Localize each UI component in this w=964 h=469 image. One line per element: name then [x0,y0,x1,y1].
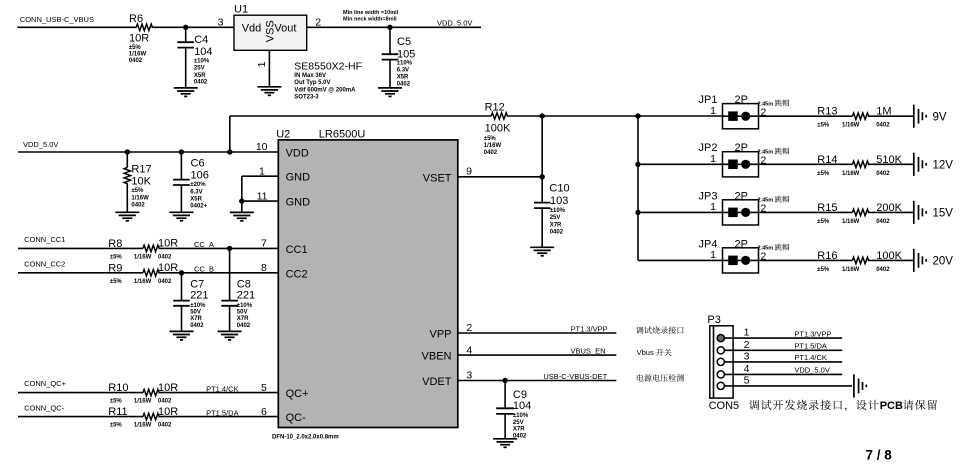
ground below C5 [378,88,402,97]
svg-text:221: 221 [237,289,255,301]
svg-text:0402: 0402 [876,219,890,225]
svg-text:Vdd: Vdd [242,22,262,34]
svg-text:±5%: ±5% [110,423,123,429]
power ground 15V [914,201,926,224]
junction at JP3 tap [635,210,640,215]
svg-text:±5%: ±5% [817,267,830,273]
svg-text:2: 2 [466,322,472,334]
svg-text:0402: 0402 [190,323,204,329]
ground below R17 [115,212,139,221]
svg-text:USB-C-VBUS-DET: USB-C-VBUS-DET [543,372,607,381]
svg-text:0402: 0402 [484,150,498,156]
svg-text:Min line width =10mil: Min line width =10mil [343,10,399,16]
svg-text:1/16W: 1/16W [131,195,149,201]
P3 pin 1 circle [717,335,724,342]
svg-text:C10: C10 [549,182,569,194]
jumper JP2 box [723,152,759,177]
wire R6 to U1 pin 3 [152,26,234,28]
wire P3 pin 5 [724,385,852,387]
wire R14 to ground [868,163,913,165]
JP1 pin 1 pad [728,111,738,121]
wire P3 pin 2 [724,349,842,351]
svg-text:±5%: ±5% [484,136,497,142]
svg-text:103: 103 [550,195,568,207]
svg-text:1: 1 [710,201,716,213]
power ground 20V [914,249,926,272]
resistor R8 [143,245,159,251]
P3 pin 4 circle [717,371,724,378]
svg-text:±5%: ±5% [817,171,830,177]
svg-text:R15: R15 [817,202,837,214]
svg-text:PT1.4/CK: PT1.4/CK [206,384,239,393]
svg-text:1/16W: 1/16W [842,171,860,177]
svg-text:PCB: PCB [880,400,903,412]
JP4 pin 2 pad [741,256,750,265]
svg-text:VDET: VDET [422,376,452,388]
ground below C8 [218,331,242,340]
svg-text:25V: 25V [550,215,561,221]
svg-text:104: 104 [513,400,531,412]
svg-text:CC_B: CC_B [194,265,214,274]
resistor R15 [852,209,868,215]
JP4 pin 1 pad [728,256,738,266]
svg-text:9: 9 [466,166,472,178]
capacitor C5 [382,53,399,55]
svg-text:221: 221 [190,289,208,301]
svg-text:12V: 12V [933,160,954,172]
svg-text:U1: U1 [234,3,248,15]
wire U2 pin 9 VSET [458,176,542,178]
wire CONN_QC+ to R10 [18,392,143,394]
svg-text:X7R: X7R [190,316,202,322]
wire R12 to JP1 [507,115,723,117]
svg-text:±5%: ±5% [110,255,123,261]
svg-text:VDD_5.0V: VDD_5.0V [23,140,58,149]
wire C4 lead [185,27,187,42]
svg-text:25V: 25V [513,420,524,426]
svg-text:CON5: CON5 [709,400,740,412]
wire R11 to U2 pin 6 [159,416,279,418]
wire C10 to ground [541,208,543,247]
svg-text:0402: 0402 [876,267,890,273]
svg-text:R16: R16 [817,250,837,262]
svg-text:±5%: ±5% [110,399,123,405]
capacitor C10 [534,202,551,204]
junction at R17 [125,149,130,154]
svg-text:0402: 0402 [158,279,172,285]
svg-text:3: 3 [218,17,224,29]
P3 pin 2 circle [717,347,724,354]
svg-text:5: 5 [744,374,750,386]
svg-text:1/16W: 1/16W [134,399,152,405]
capacitor C8 [221,300,238,302]
junction at riser to R12 bus [227,149,232,154]
svg-text:±10%: ±10% [513,413,529,419]
wire R9 to U2 pin 8 [159,272,279,274]
svg-text:±5%: ±5% [129,45,142,51]
wire to U2 ground [241,201,243,212]
svg-text:±10%: ±10% [237,303,253,309]
junction at C5 tap [387,25,392,30]
svg-text:Vbus: Vbus [637,348,654,357]
wire JP2 to R14 [759,163,853,165]
note debug programming interface [636,326,643,333]
note keep PCB for debug [749,400,759,410]
wire U1 pin 1 to ground [268,50,270,87]
capacitor C6 [173,179,190,181]
svg-text:SOT23-3: SOT23-3 [294,95,319,101]
wire JP4 to R16 [759,259,853,261]
junction at C9 tap [502,378,507,383]
svg-text:0402: 0402 [158,399,172,405]
svg-text:±5%: ±5% [817,123,830,129]
wire C9 lead [504,381,506,409]
svg-text:R13: R13 [817,106,837,118]
svg-text:1: 1 [710,249,716,261]
svg-text:2.45m: 2.45m [758,198,774,204]
wire CONN_CC2 to R9 [18,272,143,274]
svg-text:CONN_QC-: CONN_QC- [24,404,65,413]
svg-text:9V: 9V [933,111,947,123]
capacitor C9 [496,407,514,409]
wire C6 lead [180,152,182,180]
svg-text:R8: R8 [108,238,122,250]
wire CONN_USB-C_VBUS to R6 [17,26,136,28]
ground below C4 [174,88,198,97]
wire VDD_5.0V to U2 pin 10 [18,151,278,153]
svg-text:CONN_CC2: CONN_CC2 [24,260,65,269]
svg-text:6.3V: 6.3V [397,67,409,73]
svg-text:CC1: CC1 [286,244,308,256]
svg-text:1: 1 [710,153,716,165]
svg-text:0402: 0402 [397,82,411,88]
svg-text:R9: R9 [108,263,122,275]
svg-text:104: 104 [194,46,212,58]
op-amp U1 regulator box [234,15,307,50]
svg-text:0402: 0402 [158,255,172,261]
svg-text:IN Max 36V: IN Max 36V [294,73,326,79]
wire CONN_QC- to R11 [18,416,143,418]
svg-text:100K: 100K [485,122,511,134]
svg-text:±5%: ±5% [131,188,144,194]
svg-text:Min neck width=8mil: Min neck width=8mil [343,16,397,22]
svg-text:VPP: VPP [429,329,451,341]
resistor R11 [143,413,159,419]
svg-text:0402: 0402 [876,123,890,129]
junction at pin 11 ground [239,198,244,203]
resistor R16 [852,257,868,263]
wire C5 lead [389,27,391,54]
wire R13 to ground [868,115,913,117]
wire JP1 internal [723,115,759,117]
resistor R17 [126,152,128,168]
junction at C6 [179,149,184,154]
svg-text:R11: R11 [108,406,127,418]
svg-text:±20%: ±20% [190,182,206,188]
svg-text:10R: 10R [129,33,149,45]
JP3 pin 1 pad [728,208,738,218]
svg-text:2P: 2P [735,190,748,202]
resistor R6 [136,24,152,30]
svg-text:±10%: ±10% [190,303,206,309]
svg-text:1/16W: 1/16W [484,143,502,149]
svg-text:2P: 2P [735,142,748,154]
svg-text:2.45m: 2.45m [758,149,774,155]
wire R10 to U2 pin 5 [159,392,279,394]
junction at C10 tap [540,174,545,179]
wire JP1 to R13 [759,115,853,117]
jumper JP1 box [723,104,759,129]
svg-text:1/16W: 1/16W [842,123,860,129]
svg-text:U2: U2 [276,128,290,140]
svg-text:0402: 0402 [129,58,143,64]
wire U2 pin 1 GND stub [242,175,278,177]
ground below C9 [493,439,517,448]
svg-text:QC+: QC+ [286,388,309,400]
wire C10 lead [541,177,543,203]
svg-text:1/16W: 1/16W [134,255,152,261]
svg-text:±10%: ±10% [194,59,210,65]
wire R16 to ground [868,259,913,261]
svg-text:10K: 10K [131,176,151,188]
junction at C4 tap [183,25,188,30]
svg-text:R12: R12 [485,102,505,114]
svg-text:1/16W: 1/16W [134,279,152,285]
wire U2 pin 4 VBEN [458,354,617,356]
ground below U1 [257,87,281,96]
svg-text:0402: 0402 [194,80,208,86]
svg-text:VBEN: VBEN [422,351,452,363]
svg-text:X5R: X5R [190,197,202,203]
capacitor C4 [177,41,194,43]
svg-text:3: 3 [744,350,750,362]
svg-text:1/16W: 1/16W [134,423,152,429]
resistor R14 [852,161,868,167]
svg-text:106: 106 [191,170,209,182]
wire C7 lead [181,273,183,301]
svg-text:3: 3 [466,370,472,382]
svg-text:20V: 20V [933,256,954,268]
resistor R12 [491,113,507,119]
svg-text:CONN_USB-C_VBUS: CONN_USB-C_VBUS [20,15,94,24]
wire C9 to ground [504,414,506,439]
wire JP3 to R15 [759,211,853,213]
wire P3 pin 1 [724,337,842,339]
svg-text:C6: C6 [191,157,205,169]
svg-text:0402: 0402 [131,203,145,209]
svg-text:Out Typ 5.0V: Out Typ 5.0V [294,80,330,86]
svg-text:CONN_QC+: CONN_QC+ [24,379,67,388]
JP1 pin 2 pad [741,112,750,121]
svg-text:±10%: ±10% [550,208,566,214]
svg-text:0402: 0402 [550,229,564,235]
ground below C10 [530,247,554,256]
svg-text:R14: R14 [817,154,837,166]
wire C8 lead [229,248,231,300]
svg-text:6.3V: 6.3V [190,189,202,195]
svg-text:2.45m: 2.45m [758,246,774,252]
svg-text:15V: 15V [933,208,954,220]
svg-text:DFN-10_2.0x2.0x0.8mm: DFN-10_2.0x2.0x0.8mm [272,434,339,440]
svg-text:1: 1 [710,105,716,117]
svg-text:4: 4 [744,363,750,375]
svg-text:VDD_5.0V: VDD_5.0V [794,366,829,375]
jumper JP4 box [723,248,759,273]
junction at VSET riser [540,113,545,118]
svg-text:X7R: X7R [237,316,249,322]
svg-text:50V: 50V [237,310,248,316]
svg-text:VDD_5.0V: VDD_5.0V [437,19,472,28]
wire R8 to U2 pin 7 [159,247,279,249]
JP2 pin 2 pad [741,160,750,169]
svg-text:QC-: QC- [286,412,307,424]
ground below C6 [169,212,193,221]
capacitor C7 [173,300,190,302]
wire JP riser [637,116,639,260]
P3 pin 3 circle [717,358,724,365]
svg-text:X7R: X7R [550,222,562,228]
svg-text:PT1.3/VPP: PT1.3/VPP [571,325,608,334]
power ground 12V [914,153,926,176]
svg-text:PT1.4/CK: PT1.4/CK [794,353,827,362]
svg-text:0402: 0402 [876,171,890,177]
svg-text:1/16W: 1/16W [129,52,147,58]
svg-text:Vdif 600mV @ 200mA: Vdif 600mV @ 200mA [294,87,356,93]
wire JP riser to JP2 [638,163,723,165]
svg-text:0402: 0402 [237,323,251,329]
wire C6 to ground [180,185,182,212]
svg-text:SE8550X2-HF: SE8550X2-HF [294,60,362,72]
svg-text:2P: 2P [735,94,748,106]
svg-text:VBUS_EN: VBUS_EN [571,347,606,356]
wire GND pins vertical [241,176,243,201]
svg-text:X5R: X5R [397,74,409,80]
svg-text:0402: 0402 [158,423,172,429]
svg-text:10: 10 [256,141,268,153]
svg-text:R17: R17 [131,164,151,176]
wire P3 pin 3 [724,361,842,363]
svg-text:CC2: CC2 [286,268,308,280]
svg-text:VDD: VDD [286,148,309,160]
wire C4 to ground [185,48,187,88]
wire bus to R12 [230,115,491,117]
wire JP3 internal [723,211,759,213]
svg-text:0402+: 0402+ [190,204,207,210]
svg-text:R10: R10 [108,382,128,394]
svg-text:2: 2 [744,339,750,351]
wire C8 to ground [229,306,231,332]
svg-text:C5: C5 [397,36,411,48]
svg-text:25V: 25V [194,66,205,72]
wire R15 to ground [868,211,913,213]
svg-text:2.45m: 2.45m [758,101,774,107]
connector P3 body [710,326,733,398]
svg-text:7 / 8: 7 / 8 [866,447,893,462]
svg-text:Vout: Vout [274,22,296,34]
svg-text:GND: GND [286,172,311,184]
ground below U2 GND pins [230,212,254,221]
svg-text:C4: C4 [194,34,208,46]
svg-text:X5R: X5R [194,73,206,79]
svg-text:±10%: ±10% [397,61,413,67]
resistor R13 [852,113,868,119]
svg-text:1: 1 [744,327,750,339]
junction at JP2 tap [635,162,640,167]
svg-text:4: 4 [466,344,472,356]
power ground at P3 pin 5 [854,374,866,397]
wire JP2 internal [723,163,759,165]
note supply voltage detect [637,374,644,381]
junction at JP riser [635,113,640,118]
svg-text:±5%: ±5% [817,219,830,225]
jumper JP3 box [723,200,759,225]
junction at C7 tap [179,270,184,275]
wire P3 pin 4 [724,373,842,375]
wire C7 to ground [181,306,183,332]
svg-text:2P: 2P [735,238,748,250]
wire U1 pin 2 to VDD_5.0V [307,26,481,28]
svg-text:CC_A: CC_A [194,240,214,249]
wire JP4 internal [723,259,759,261]
svg-text:VSET: VSET [423,172,452,184]
wire CONN_CC1 to R8 [18,247,143,249]
wire JP riser to JP3 [638,211,723,213]
wire U2 pin 2 VPP [458,332,617,334]
svg-text:X7R: X7R [513,427,525,433]
ground below C7 [170,331,194,340]
svg-text:R6: R6 [129,13,143,25]
JP2 pin 1 pad [728,160,738,170]
svg-text:CONN_CC1: CONN_CC1 [24,235,65,244]
wire VSET riser [541,116,543,177]
svg-text:50V: 50V [190,310,201,316]
IC U2 LR6500U body [278,140,458,428]
svg-text:LR6500U: LR6500U [319,128,366,140]
svg-text:105: 105 [397,48,415,60]
svg-text:1/16W: 1/16W [842,267,860,273]
power ground 9V [914,105,926,128]
wire C5 to ground [389,60,391,88]
svg-text:P3: P3 [707,314,720,326]
svg-text:PT1.5/DA: PT1.5/DA [206,408,239,417]
svg-text:1: 1 [256,61,268,67]
junction at C8 tap [227,246,232,251]
resistor R10 [143,389,159,395]
wire U2 pin 3 VDET [458,380,617,382]
wire riser to top bus [229,116,231,152]
svg-text:±5%: ±5% [110,279,123,285]
resistor R9 [143,270,159,276]
svg-text:1/16W: 1/16W [842,219,860,225]
svg-text:PT1.3/VPP: PT1.3/VPP [794,329,831,338]
P3 pin 5 circle [717,382,724,389]
wire U2 pin 11 GND stub [242,200,278,202]
JP3 pin 2 pad [741,208,750,217]
svg-text:GND: GND [286,197,311,209]
svg-text:PT1.5/DA: PT1.5/DA [794,342,827,351]
wire JP riser to JP4 [638,259,723,261]
